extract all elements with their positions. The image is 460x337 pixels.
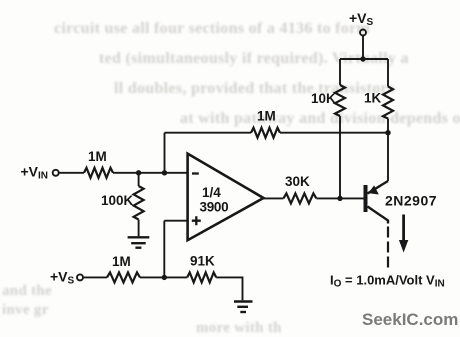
collector lead: [368, 207, 389, 224]
wire: emitter branch down: [387, 133, 389, 181]
resistor 1M (input): [84, 168, 113, 178]
svg-text:+VS: +VS: [50, 269, 75, 287]
faint blob bottom-left 1: [2, 283, 52, 300]
label op-amp plus input: [192, 216, 201, 225]
label +VS (bottom): [50, 269, 75, 287]
svg-text:SeekIC.com: SeekIC.com: [362, 310, 458, 329]
svg-text:1M: 1M: [257, 109, 276, 124]
label 1M (input): [88, 149, 107, 164]
resistor 1K: [383, 87, 393, 119]
node: base / 10K junction: [337, 196, 342, 201]
resistor 1M (feedback): [251, 128, 280, 138]
svg-text:1K: 1K: [364, 91, 382, 106]
wire: collector dashed output line: [387, 227, 389, 269]
wire: +VS terminal to top rail: [362, 36, 364, 59]
wire: +VIN terminal to 1M: [59, 172, 84, 174]
emitter lead: [368, 181, 389, 194]
label 3900: [200, 200, 229, 215]
terminal +VS bottom: [77, 274, 83, 280]
transistor Q1 2N2907: [364, 181, 389, 224]
faint show-through paragraph line 3: [114, 80, 394, 98]
node: top rail junction: [360, 56, 365, 61]
label 1M (feedback): [257, 109, 276, 124]
ground (91K): [234, 302, 253, 313]
svg-text:1/4: 1/4: [202, 185, 221, 200]
label 1/4: [202, 185, 221, 200]
wire: 91K to ground drop: [216, 277, 242, 300]
current direction arrow: [399, 215, 408, 253]
node: feedback / emitter branch junction: [385, 130, 390, 135]
label 1M (bottom): [112, 254, 131, 269]
terminal +VIN: [53, 170, 59, 176]
wire: +VS terminal to 1M: [83, 276, 107, 278]
node: non-inverting branch junction: [162, 275, 167, 280]
faint blob bottom-center: [196, 320, 282, 337]
wire: top rail down to 10K: [339, 59, 341, 85]
label op-amp minus input: [192, 172, 199, 174]
op-amp U1 1/4 3900: [188, 154, 264, 241]
ground (100K): [128, 237, 150, 247]
svg-text:+VIN: +VIN: [21, 164, 49, 182]
label IO = 1.0mA/Volt VIN: [330, 273, 445, 290]
faint blob bottom-left 2: [2, 302, 49, 319]
svg-text:3900: 3900: [200, 200, 229, 215]
wire: 100K to ground: [138, 220, 140, 237]
label 2N2907: [385, 193, 437, 209]
resistor 30K: [283, 193, 316, 203]
faint show-through paragraph line 4: [180, 110, 460, 128]
label 30K: [285, 174, 310, 189]
svg-text:+VS: +VS: [349, 10, 374, 28]
label +VIN: [21, 164, 49, 182]
svg-text:IO = 1.0mA/Volt VIN: IO = 1.0mA/Volt VIN: [330, 273, 445, 290]
wire: 1M to 91K: [140, 276, 187, 278]
label +VS (top supply): [349, 10, 374, 28]
resistor 1M (bottom): [107, 272, 140, 282]
wire: junction down to 100K: [138, 173, 140, 186]
svg-text:30K: 30K: [285, 174, 310, 189]
svg-text:1M: 1M: [112, 254, 131, 269]
resistor 100K: [134, 186, 144, 220]
faint show-through paragraph line 2: [99, 50, 409, 68]
wire: feedback rail: [165, 132, 389, 134]
svg-text:100K: 100K: [101, 193, 134, 208]
label 1K: [364, 91, 382, 106]
label 100K: [101, 193, 134, 208]
svg-text:10K: 10K: [311, 91, 336, 106]
resistor 91K: [187, 272, 216, 282]
faint show-through paragraph line 1: [54, 20, 370, 38]
wire: feedback drop to inverting input: [164, 133, 166, 173]
wire: 1K bottom to feedback node: [387, 119, 389, 134]
label 10K: [311, 91, 336, 106]
watermark SeekIC.com: [362, 310, 458, 329]
wire: top rail down to 1K: [387, 59, 389, 87]
node: 100K branch junction: [136, 170, 141, 175]
label 91K: [190, 254, 215, 269]
wire: top rail: [340, 58, 388, 60]
wire: non-inverting input: [164, 220, 187, 222]
svg-text:1M: 1M: [88, 149, 107, 164]
base bar: [364, 185, 368, 212]
wire: 30K to transistor base: [317, 197, 364, 199]
wire: 1M to inverting input of op-amp: [113, 172, 188, 174]
wire: 10K bottom down to base node (crosses feedback): [339, 116, 341, 198]
svg-text:2N2907: 2N2907: [385, 193, 437, 209]
wire: non-inverting input drop to bottom rail: [163, 221, 165, 278]
svg-text:91K: 91K: [190, 254, 215, 269]
emitter arrow (PNP, pointing into base): [368, 185, 379, 194]
wire: op-amp output to 30K: [264, 197, 284, 199]
node: feedback branch junction: [162, 170, 167, 175]
terminal +VS top: [360, 30, 366, 36]
resistor 10K: [335, 85, 345, 116]
